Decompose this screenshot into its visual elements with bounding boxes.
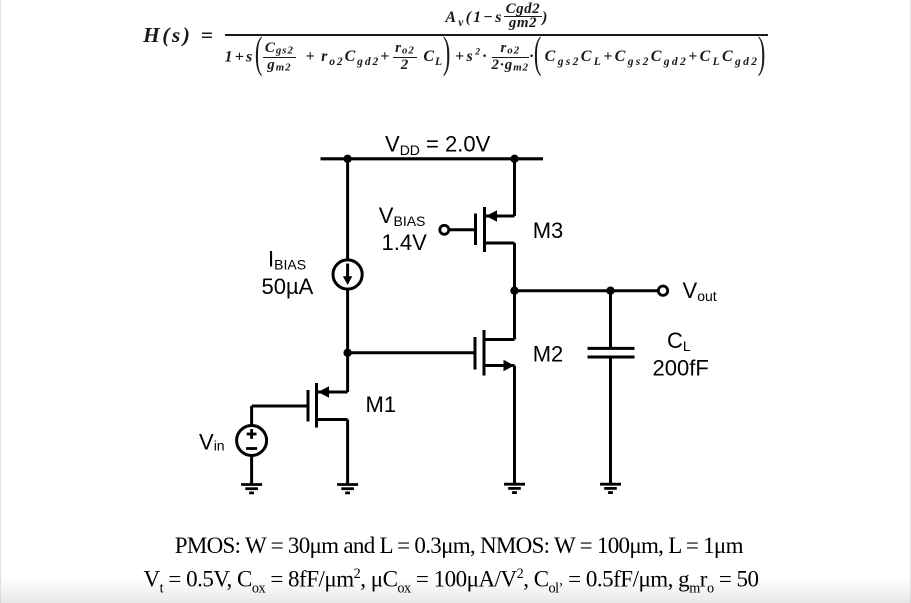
svg-text:VDD = 2.0V: VDD = 2.0V: [385, 132, 491, 158]
svg-text:M2: M2: [533, 342, 564, 367]
svg-text:M3: M3: [533, 218, 564, 243]
svg-text:Vin: Vin: [199, 430, 225, 455]
svg-text:CL: CL: [667, 328, 691, 354]
svg-text:200fF: 200fF: [653, 356, 709, 381]
svg-text:Vout: Vout: [683, 278, 717, 304]
svg-text:VBIAS: VBIAS: [379, 203, 426, 229]
svg-text:M1: M1: [366, 392, 397, 417]
svg-text:1.4V: 1.4V: [382, 230, 428, 255]
svg-text:IBIAS: IBIAS: [268, 247, 306, 273]
svg-text:50µA: 50µA: [262, 274, 314, 299]
